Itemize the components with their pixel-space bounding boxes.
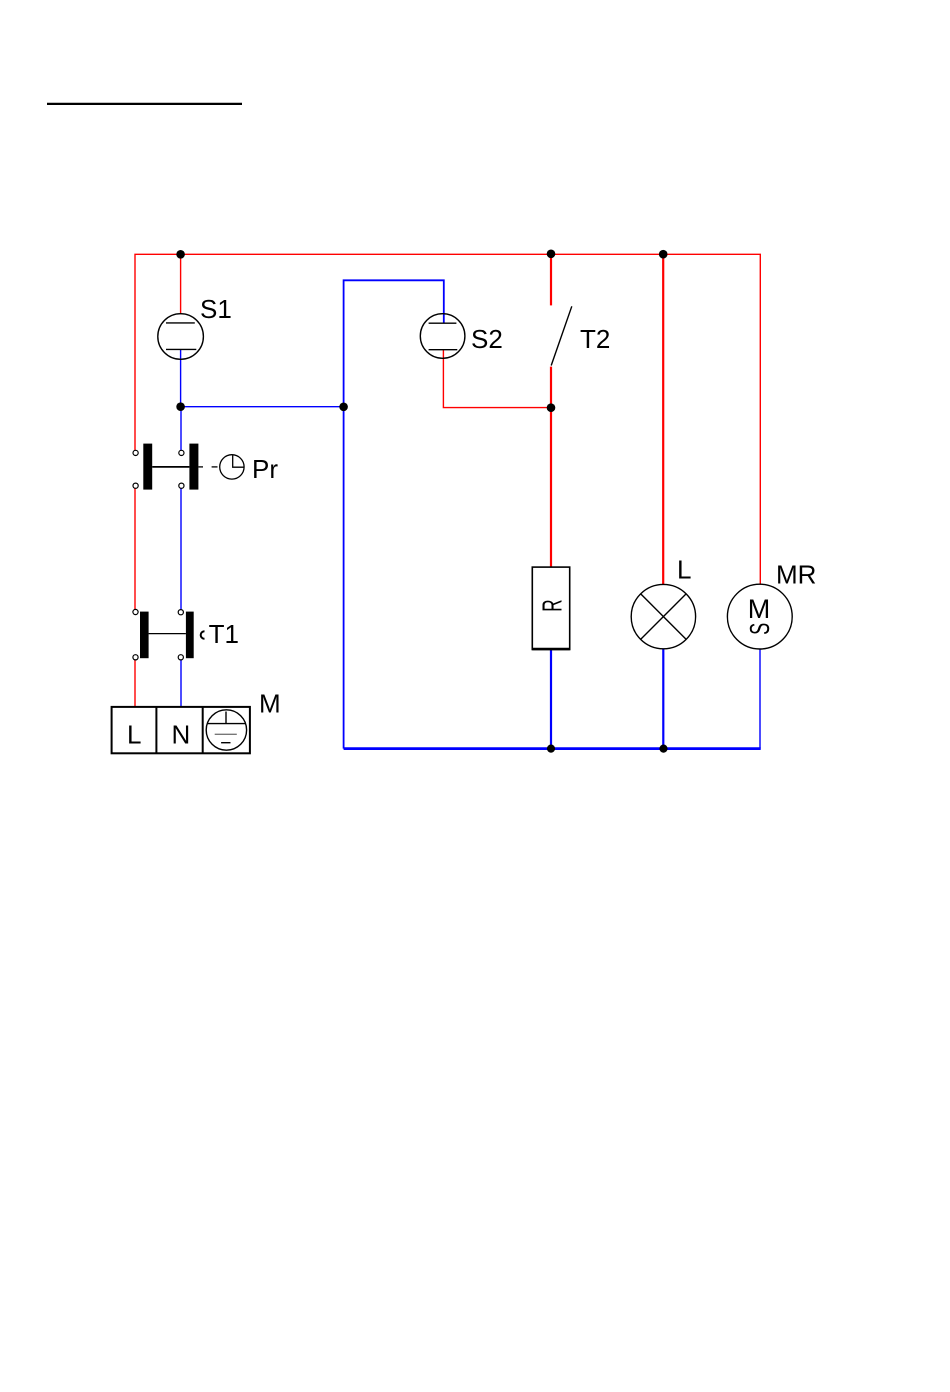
svg-text:S2: S2 xyxy=(471,324,503,354)
svg-text:T2: T2 xyxy=(580,324,610,354)
svg-text:M: M xyxy=(259,689,281,719)
svg-text:M: M xyxy=(748,594,771,624)
svg-text:T1: T1 xyxy=(209,619,239,649)
svg-text:S1: S1 xyxy=(200,294,232,324)
svg-text:L: L xyxy=(127,719,141,749)
svg-text:R: R xyxy=(536,599,567,611)
svg-text:MR: MR xyxy=(776,559,816,589)
svg-text:N: N xyxy=(172,719,191,749)
svg-text:Pr: Pr xyxy=(252,454,278,484)
svg-text:S: S xyxy=(745,623,776,635)
svg-text:L: L xyxy=(677,555,691,585)
